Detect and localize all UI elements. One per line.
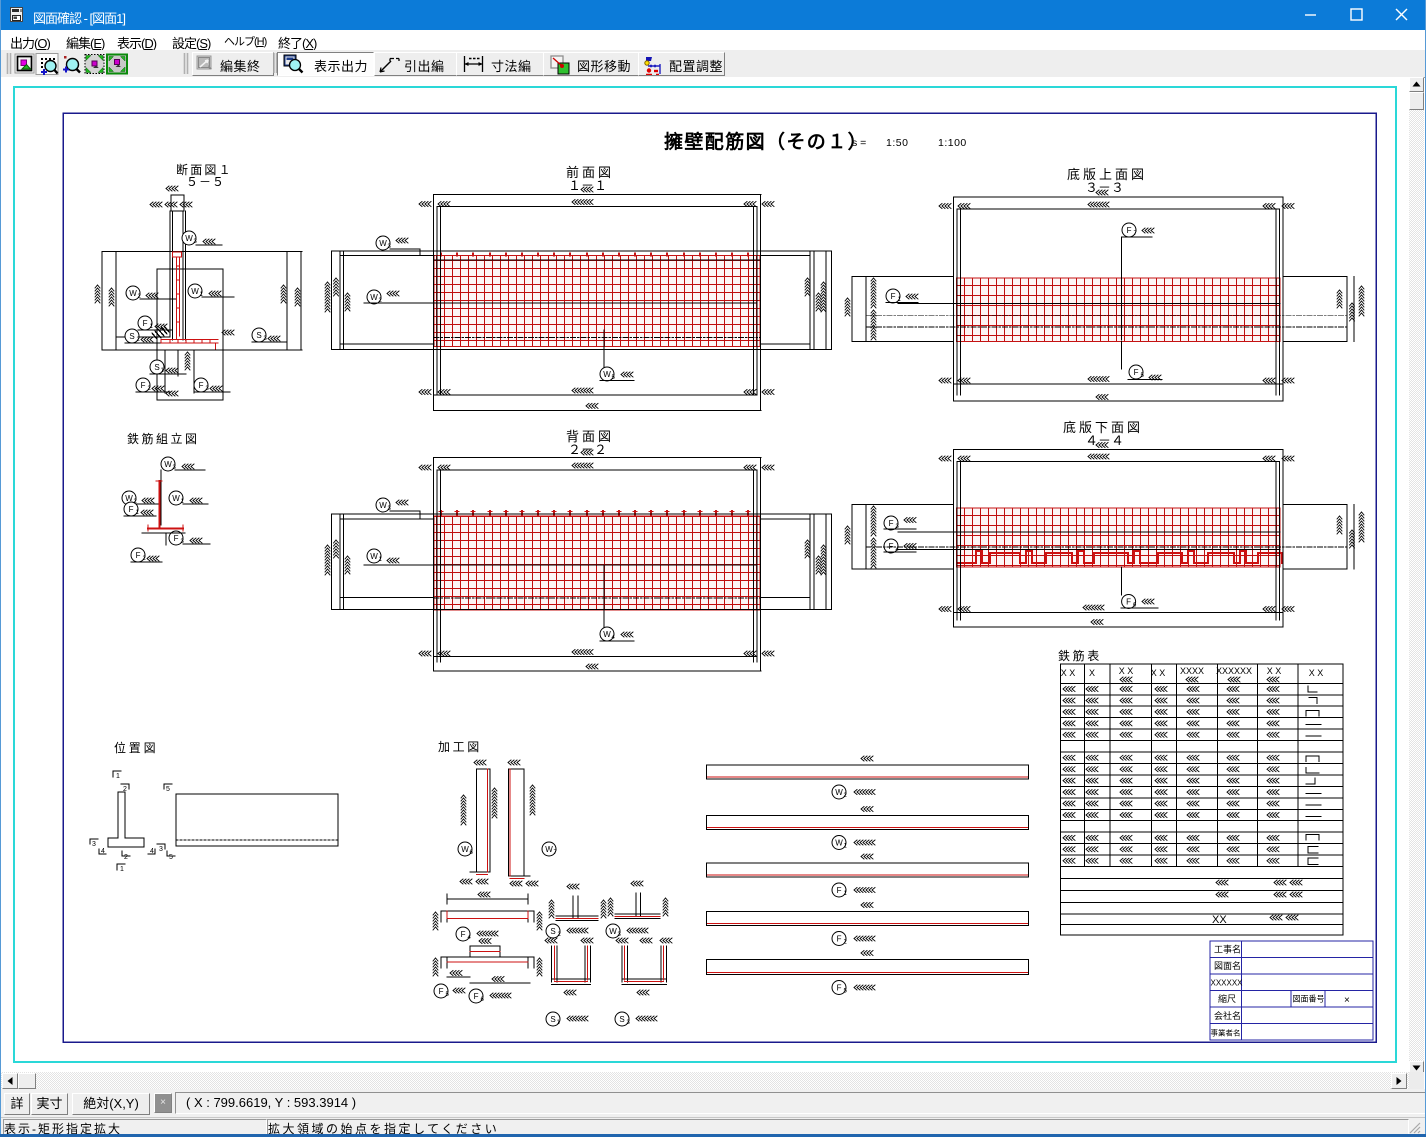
status bar — [1, 1089, 1425, 1117]
toolbar — [1, 50, 1425, 78]
背面図 red grid — [434, 511, 760, 610]
data row squiggles — [1063, 687, 1279, 692]
button 寸法編集 — [456, 52, 545, 76]
svg-text:2: 2 — [123, 786, 127, 793]
labels — [182, 231, 196, 245]
svg-text:2: 2 — [558, 932, 562, 938]
svg-text:1:50: 1:50 — [886, 137, 908, 149]
right wing — [761, 255, 811, 257]
row lines — [1061, 683, 1344, 866]
svg-text:2: 2 — [124, 854, 128, 861]
svg-text:２－２: ２－２ — [568, 442, 607, 457]
left wing — [340, 518, 434, 520]
svg-text:XX: XX — [1212, 914, 1227, 926]
left wing — [340, 255, 434, 257]
鉄筋組立図 red rebar T — [148, 481, 183, 531]
bottom bar — [1, 1117, 1425, 1135]
top dimension lines — [434, 194, 762, 196]
svg-text:6: 6 — [481, 997, 485, 1003]
small button 2: zoom window (pressed) — [36, 54, 58, 76]
svg-text:X X: X X — [1061, 668, 1076, 678]
menu bar — [1, 30, 1425, 50]
svg-text:4: 4 — [150, 848, 154, 855]
加工図 red lines on tall bars — [447, 769, 664, 982]
svg-text:4: 4 — [612, 635, 616, 641]
bar F5 — [707, 960, 1029, 975]
svg-text:7: 7 — [1134, 231, 1138, 237]
svg-text:位置図: 位置図 — [114, 740, 158, 755]
grip lines — [8, 53, 188, 74]
right wing — [1283, 275, 1347, 277]
svg-text:会社名: 会社名 — [1214, 1010, 1241, 1021]
bottom dims — [434, 656, 758, 658]
labels left — [376, 498, 390, 512]
svg-text:3: 3 — [264, 336, 268, 342]
columns — [953, 449, 955, 627]
svg-text:X X: X X — [1309, 668, 1324, 678]
svg-text:1: 1 — [136, 510, 140, 516]
svg-text:擁壁配筋図（その１）: 擁壁配筋図（その１） — [664, 130, 868, 153]
dash-dot axis lines — [866, 314, 1347, 316]
bar F2 — [707, 912, 1029, 926]
svg-text:5: 5 — [166, 786, 170, 793]
last column shape glyphs — [1306, 686, 1321, 865]
min/max/close — [1290, 0, 1426, 30]
view 位置図 — [90, 740, 338, 873]
grid black lines — [434, 597, 760, 599]
bottom dims — [954, 611, 1284, 613]
svg-text:事業者名: 事業者名 — [1211, 1028, 1241, 1038]
svg-text:2: 2 — [844, 793, 848, 799]
footing block — [157, 269, 223, 400]
tall bar B — [509, 769, 525, 876]
bar W1 — [707, 816, 1029, 830]
svg-text:4: 4 — [101, 848, 105, 855]
前面図 red grid — [434, 254, 760, 347]
window title bar — [0, 0, 1426, 30]
bottom dims — [434, 394, 758, 396]
svg-text:3: 3 — [618, 932, 622, 938]
button 編集終了 — [192, 52, 274, 76]
shape S1 U — [551, 946, 553, 982]
plan rectangle — [176, 794, 338, 846]
shape F straight bar — [447, 898, 528, 900]
button 配置調整 — [638, 52, 725, 76]
svg-text:X X: X X — [1119, 666, 1134, 676]
svg-text:5: 5 — [169, 854, 173, 861]
svg-text:1: 1 — [844, 844, 848, 850]
shape W3 tee — [635, 893, 637, 916]
底版上面図 red grid — [957, 278, 1281, 342]
svg-text:3: 3 — [159, 846, 163, 853]
small button 1: shape tool — [15, 54, 34, 73]
bottom label — [1121, 342, 1123, 369]
bar F1 — [707, 863, 1029, 877]
F7 top label — [1122, 223, 1136, 237]
svg-text:4: 4 — [468, 935, 472, 941]
svg-text:１－１: １－１ — [568, 178, 607, 193]
底版下面図 red grid — [957, 508, 1281, 567]
svg-text:工事名: 工事名 — [1214, 944, 1241, 955]
parapet rect — [166, 186, 178, 191]
horizontal scrollbar — [1, 1072, 1409, 1089]
svg-text:鉄筋表: 鉄筋表 — [1058, 648, 1102, 663]
svg-text:４－４: ４－４ — [1085, 433, 1124, 448]
svg-text:3: 3 — [194, 239, 198, 245]
鉄筋表 rebar table — [1058, 648, 1343, 935]
view 前面図 1-1 — [325, 165, 832, 410]
svg-text:5: 5 — [446, 992, 450, 998]
svg-text:３－３: ３－３ — [1085, 180, 1124, 195]
small button 3: zoom + — [63, 56, 80, 73]
svg-text:X X: X X — [1151, 668, 1166, 678]
view 底版下面図 4-4 — [845, 420, 1364, 627]
left wing — [852, 503, 954, 505]
加工図 section — [433, 740, 672, 1026]
columns — [433, 195, 435, 411]
shape S3 U — [621, 946, 623, 982]
svg-text:7: 7 — [554, 850, 558, 856]
svg-text:1: 1 — [379, 557, 383, 563]
full top/bottom lines — [332, 250, 832, 252]
断面図1 red rebar L — [161, 252, 218, 349]
app icon — [9, 7, 25, 23]
svg-text:5: 5 — [1141, 373, 1145, 379]
title block 図枠 — [1210, 941, 1373, 1040]
full top/bottom lines — [332, 513, 832, 515]
svg-text:s =: s = — [852, 137, 866, 149]
stem wall lines — [169, 211, 171, 337]
section cut marks — [113, 771, 121, 777]
svg-text:鉄筋組立図: 鉄筋組立図 — [127, 431, 200, 446]
view 断面図1 5-5 — [95, 162, 302, 400]
svg-text:図面番号: 図面番号 — [1293, 994, 1325, 1004]
svg-text:XXXXXX: XXXXXX — [1216, 666, 1252, 676]
svg-text:加工図: 加工図 — [438, 740, 482, 754]
small button 5: full view arrows out — [107, 55, 127, 74]
svg-text:2: 2 — [148, 386, 152, 392]
svg-text:図面名: 図面名 — [1214, 960, 1241, 971]
right wing — [1283, 503, 1347, 505]
shape F stepped bar — [441, 956, 534, 958]
labels left — [376, 236, 390, 250]
tall bar A — [477, 769, 491, 872]
bottom dims — [954, 383, 1284, 385]
svg-text:1: 1 — [844, 891, 848, 897]
wall section T-shape — [108, 792, 144, 847]
right wing — [761, 518, 811, 520]
底版下面図 red hooked bar — [958, 551, 1282, 563]
red edges of straight bars — [708, 777, 1028, 973]
shape S tee — [572, 896, 574, 918]
left wing — [852, 275, 954, 277]
svg-text:3: 3 — [92, 841, 96, 848]
small button 4: fit arrows in — [85, 55, 104, 74]
svg-text:XXXX: XXXX — [1180, 666, 1204, 676]
svg-text:X X: X X — [1267, 666, 1282, 676]
columns — [953, 197, 955, 401]
svg-text:1: 1 — [120, 866, 124, 873]
svg-text:2: 2 — [143, 556, 147, 562]
svg-text:3: 3 — [206, 386, 210, 392]
bottom label — [1121, 567, 1123, 595]
svg-text:2: 2 — [844, 940, 848, 946]
view 背面図 2-2 — [325, 429, 832, 671]
svg-text:5: 5 — [844, 989, 848, 995]
button 表示出力 (active) — [277, 52, 374, 76]
svg-text:XXXXXX: XXXXXX — [1211, 979, 1244, 988]
view 鉄筋組立図 — [122, 431, 210, 562]
view 底版上面図 3-3 — [845, 167, 1364, 401]
columns — [433, 458, 435, 672]
column lines — [1084, 664, 1298, 867]
svg-text:×: × — [1344, 995, 1350, 1006]
bottom leader — [603, 565, 605, 628]
svg-text:2: 2 — [137, 337, 141, 343]
ground dim line — [102, 251, 302, 253]
svg-text:3: 3 — [627, 1020, 631, 1026]
footer marks — [1216, 880, 1228, 885]
top dimension lines — [434, 457, 762, 459]
navy page frame — [63, 113, 1376, 1042]
svg-text:1: 1 — [150, 324, 154, 330]
grid black lines — [434, 259, 761, 261]
button 図形移動 — [543, 52, 640, 76]
vertical scrollbar — [1409, 77, 1424, 1072]
svg-text:縮尺: 縮尺 — [1218, 993, 1236, 1004]
bottom leader — [603, 330, 605, 367]
svg-text:1: 1 — [116, 773, 120, 780]
straight bar diagrams (right of 加工図) — [707, 756, 1029, 995]
button 引出編集 — [374, 52, 458, 76]
svg-text:５－５: ５－５ — [186, 175, 225, 189]
svg-text:1:100: 1:100 — [938, 137, 967, 149]
header marks — [1061, 666, 1324, 678]
svg-text:X: X — [1089, 668, 1095, 678]
below footing verticals — [164, 350, 166, 393]
bar W2 — [707, 765, 1029, 779]
svg-text:6: 6 — [470, 850, 474, 856]
